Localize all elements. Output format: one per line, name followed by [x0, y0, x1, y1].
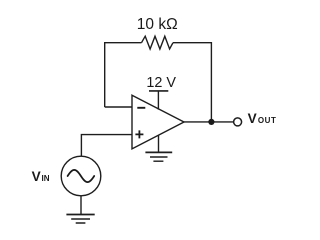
ground (source): [66, 215, 94, 224]
wire: source bottom to ground: [80, 196, 82, 215]
wire: non-inverting input from source: [81, 135, 132, 156]
svg-text:V: V: [32, 169, 41, 184]
source VIN (AC source circle): [61, 156, 101, 196]
ground (op-amp): [145, 152, 172, 161]
svg-text:10 kΩ: 10 kΩ: [137, 16, 178, 33]
supply rail bar (12 V): [149, 90, 168, 92]
op-amp positive supply pin: [157, 91, 159, 110]
svg-text:IN: IN: [42, 174, 50, 183]
wire: resistor right lead + right vertical down to output node: [173, 43, 211, 122]
svg-text:12 V: 12 V: [146, 75, 176, 91]
op-amp inverting (−) marker: [137, 107, 145, 109]
node: output junction dot: [208, 119, 214, 125]
sine wave inside source: [68, 170, 95, 182]
svg-text:V: V: [248, 111, 257, 126]
wire: inverting input: [105, 106, 132, 108]
wire: op-amp output to VOUT terminal: [184, 121, 233, 123]
svg-text:OUT: OUT: [258, 116, 277, 125]
op-amp negative supply / ground pin: [158, 135, 160, 152]
resistor R1 (10 kΩ zigzag): [142, 36, 174, 49]
VOUT terminal (open circle): [234, 118, 242, 126]
wire: feedback left vertical + top lead to resistor: [105, 43, 142, 107]
op-amp U1 triangle: [132, 95, 184, 149]
op-amp non-inverting (+) marker: [135, 130, 143, 138]
